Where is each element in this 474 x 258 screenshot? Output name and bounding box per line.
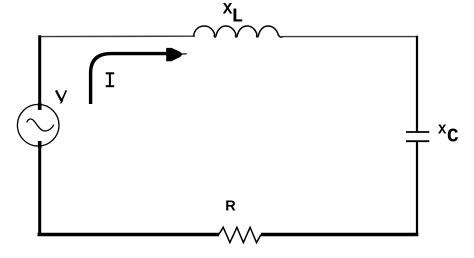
resistor R bbox=[219, 227, 261, 242]
label V (drawn) bbox=[56, 90, 66, 103]
svg-text:X: X bbox=[438, 123, 447, 139]
wire top left segment bbox=[39, 35, 195, 37]
source stub top bbox=[38, 103, 42, 110]
wire bottom left segment bbox=[38, 233, 220, 236]
source stub bottom bbox=[38, 141, 42, 148]
svg-text:C: C bbox=[447, 126, 459, 148]
wire right bbox=[416, 36, 418, 132]
wire left lower bbox=[38, 142, 41, 236]
svg-text:L: L bbox=[232, 5, 244, 27]
wire top right segment bbox=[283, 36, 418, 38]
capacitor XC bottom plate bbox=[406, 140, 429, 142]
arrowhead bbox=[166, 48, 182, 61]
wire left upper bbox=[38, 35, 41, 109]
svg-text:R: R bbox=[225, 198, 236, 214]
source V circle bbox=[17, 104, 59, 146]
label I (drawn) bbox=[106, 73, 115, 87]
inductor XL bbox=[194, 26, 284, 37]
wire right lower bbox=[416, 142, 418, 236]
wire bottom right segment bbox=[261, 233, 418, 236]
current arrow I bbox=[91, 54, 167, 104]
source sine wave bbox=[27, 119, 54, 131]
capacitor XC top plate bbox=[406, 131, 429, 133]
arrowhead tip line bbox=[181, 53, 187, 55]
